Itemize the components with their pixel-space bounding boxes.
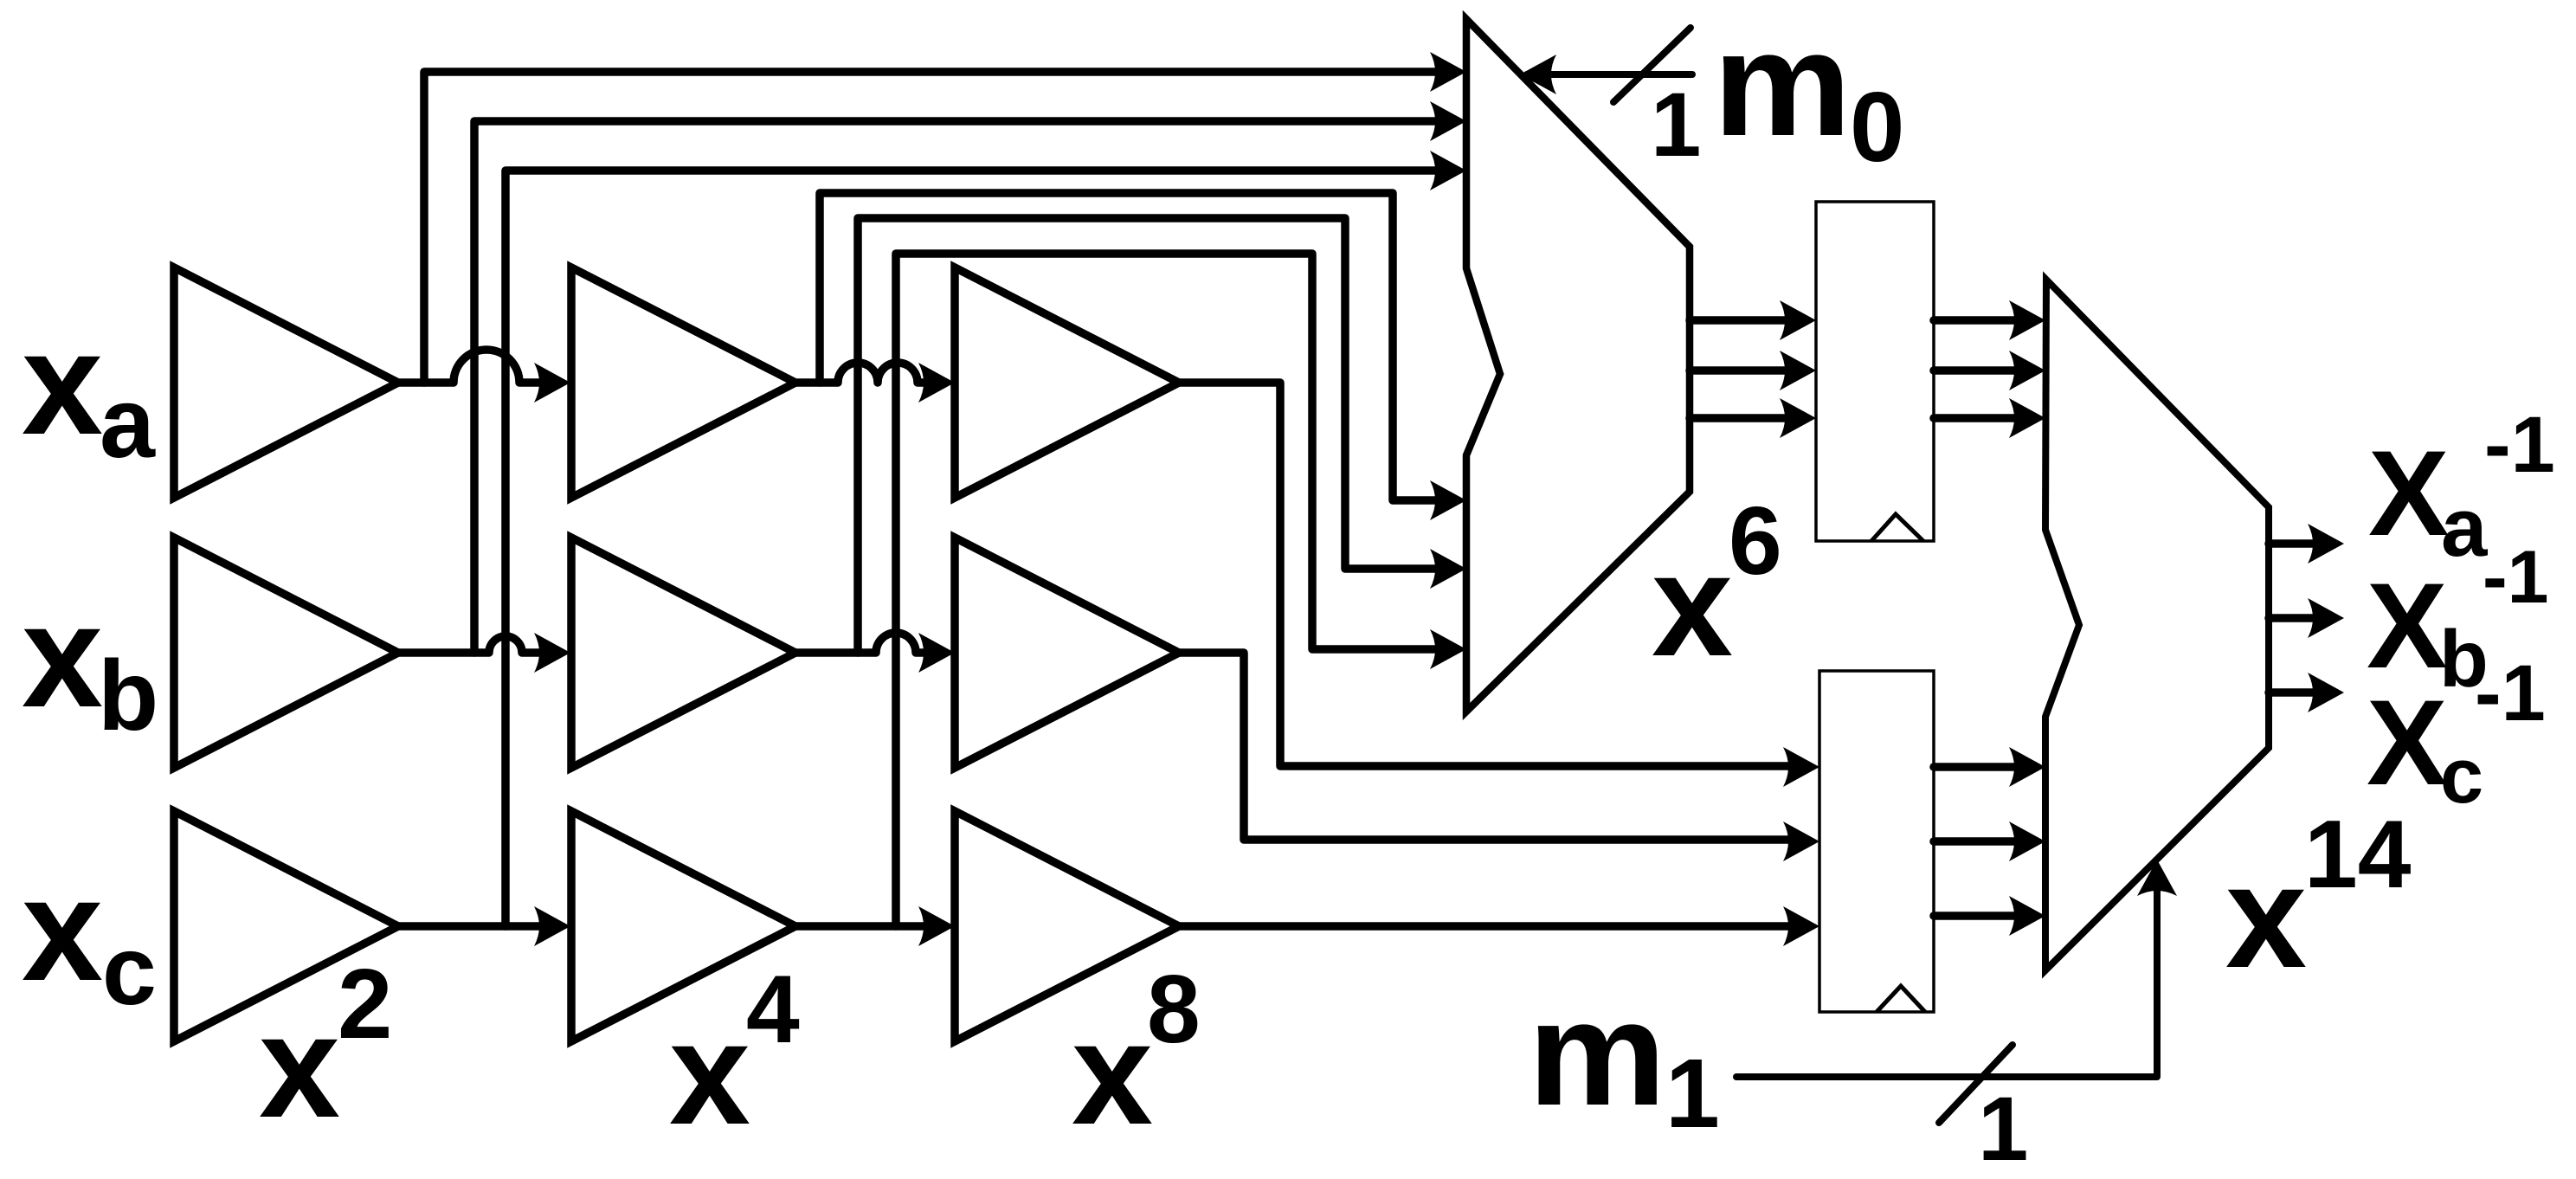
svg-text:1: 1 (1651, 74, 1701, 176)
wire feedback x4c to mux1 (896, 254, 1441, 926)
svg-text:X: X (2368, 425, 2449, 561)
arrowhead mux1 in1 (1430, 52, 1466, 92)
svg-text:m: m (1713, 1, 1851, 167)
svg-text:x: x (669, 991, 750, 1155)
clock wedge reg2 (1877, 986, 1925, 1012)
svg-text:x: x (1072, 991, 1153, 1155)
wire x4c to x8c (795, 922, 930, 931)
wire x8b to reg2 (1179, 653, 1794, 840)
wire reg1 out2 to mux2 (1934, 366, 2020, 375)
svg-text:c: c (102, 916, 157, 1025)
arrowhead mux2 in1 (2009, 300, 2045, 340)
wire x8c to reg2 (1179, 922, 1794, 931)
arrowhead mux2 in5 (2009, 821, 2045, 861)
arrowhead reg1 in1 (1780, 300, 1816, 340)
svg-text:x: x (2225, 834, 2307, 998)
arrowhead mux2 in3 (2009, 398, 2045, 438)
svg-text:-1: -1 (2484, 401, 2555, 489)
arrowhead mux1 in2 (1430, 101, 1466, 141)
svg-text:4: 4 (746, 956, 800, 1063)
svg-text:14: 14 (2304, 801, 2412, 908)
arrowhead mux1 in3 (1430, 151, 1466, 190)
wire feedback x4b to mux1 (858, 218, 1441, 653)
clock wedge reg1 (1871, 514, 1923, 541)
arrowhead into x8c (918, 906, 955, 946)
arrowhead mux2 in2 (2009, 351, 2045, 390)
svg-text:X: X (2367, 674, 2447, 810)
arrowhead mux1 in4 (1430, 480, 1466, 520)
svg-text:a: a (100, 368, 156, 479)
register reg1 (1816, 202, 1934, 541)
squarer x4 row c (571, 811, 795, 1041)
arrowhead reg1 in3 (1780, 398, 1816, 438)
wire mux2 out2 (2269, 614, 2319, 622)
wire reg2 out3 to mux2 (1934, 912, 2020, 920)
wire reg1 out1 to mux2 (1934, 316, 2020, 325)
svg-text:-1: -1 (2475, 649, 2546, 738)
squarer x8 row b (955, 538, 1179, 768)
svg-text:6: 6 (1729, 487, 1782, 595)
svg-text:c: c (2440, 733, 2483, 820)
squarer x2 row b (174, 538, 398, 768)
wire reg1 out3 to mux2 (1934, 414, 2020, 422)
wire mux1 out1 to reg1 (1690, 316, 1791, 325)
svg-text:8: 8 (1147, 956, 1201, 1063)
wire x4b to x8b with hop (795, 633, 930, 653)
squarer x2 row a (174, 267, 398, 498)
wire mux2 out3 (2269, 688, 2319, 697)
wire feedback x2c to mux1 (506, 171, 1441, 926)
wire reg2 out1 to mux2 (1934, 763, 2020, 771)
mux2 (2045, 280, 2269, 970)
svg-text:m: m (1528, 970, 1666, 1137)
arrowhead reg1 in2 (1780, 351, 1816, 390)
arrowhead mux2 in6 (2009, 896, 2045, 936)
svg-text:X: X (2367, 557, 2447, 693)
svg-text:b: b (98, 641, 158, 751)
bus slash m1 (1939, 1045, 2012, 1123)
svg-text:x: x (22, 574, 103, 738)
squarer x8 row c (955, 811, 1179, 1041)
wire x2c to x4c (398, 922, 545, 931)
arrowhead output xb (2308, 598, 2344, 638)
svg-text:x: x (22, 847, 103, 1011)
wire x8a to reg2 (1179, 383, 1794, 766)
svg-text:1: 1 (1665, 1039, 1720, 1148)
wire reg2 out2 to mux2 (1934, 837, 2020, 846)
wire mux2 out1 (2269, 539, 2319, 548)
svg-text:x: x (259, 984, 340, 1148)
wire m0 select (1527, 71, 1692, 78)
wire x4a to x8a with hops (795, 363, 930, 383)
arrowhead into x8b (918, 633, 955, 673)
arrowhead mux2 in4 (2009, 747, 2045, 787)
svg-text:x: x (22, 301, 103, 465)
arrowhead mux1 in6 (1430, 629, 1466, 669)
register reg2 (1819, 671, 1934, 1012)
squarer x4 row a (571, 267, 795, 498)
mux1 (1466, 19, 1690, 712)
arrowhead output xa (2308, 524, 2344, 564)
arrowhead into x4b (534, 633, 570, 673)
bus slash m0 (1613, 28, 1690, 102)
squarer x4 row b (571, 538, 795, 768)
squarer x8 row a (955, 267, 1179, 498)
arrowhead m1 into mux2 (2137, 860, 2177, 896)
arrowhead mux1 in5 (1430, 549, 1466, 589)
svg-text:0: 0 (1850, 73, 1904, 183)
svg-text:2: 2 (338, 950, 392, 1060)
wire feedback x2a to mux1 (424, 72, 1441, 383)
wire mux1 out3 to reg1 (1690, 414, 1791, 422)
arrowhead reg2 in3 (1783, 906, 1819, 946)
svg-text:a: a (2441, 481, 2488, 574)
arrowhead into x4c (534, 906, 570, 946)
arrowhead into x8a (918, 363, 955, 403)
wire m1 select (1736, 885, 2157, 1077)
wire x2b to x4b with hop (398, 636, 545, 653)
wire x2a to x4a with hop (398, 350, 545, 383)
wire mux1 out2 to reg1 (1690, 366, 1791, 375)
arrowhead into x4a (534, 363, 570, 403)
squarer x2 row c (174, 811, 398, 1041)
arrowhead output xc (2308, 673, 2344, 712)
wire feedback x2b to mux1 (474, 121, 1441, 653)
arrowhead reg2 in2 (1783, 821, 1819, 861)
arrowhead reg2 in1 (1783, 747, 1819, 787)
svg-text:1: 1 (1978, 1079, 2028, 1179)
svg-text:-1: -1 (2483, 536, 2548, 619)
svg-text:x: x (1652, 523, 1733, 686)
arrowhead m0 into mux1 (1520, 55, 1556, 94)
wire feedback x4a to mux1 (820, 193, 1441, 500)
